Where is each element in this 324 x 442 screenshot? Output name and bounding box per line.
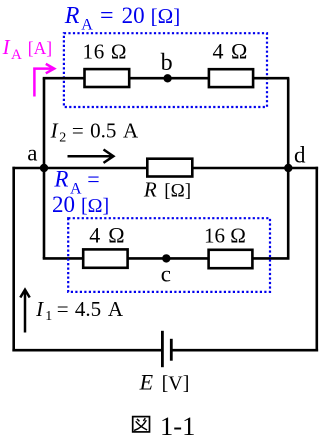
caption 図 1-1 (figure 1-1) <box>133 411 196 441</box>
arrow I_1 (upward current arrow) <box>20 290 29 333</box>
label R_A = 20 [Ω] (top, blue) <box>64 3 180 33</box>
svg-text:I: I <box>2 35 11 59</box>
wire bottom branch horizontal <box>43 257 290 260</box>
resistor 16Ω (top left) <box>85 69 130 87</box>
svg-text:20: 20 <box>122 3 145 28</box>
svg-text:[Ω]: [Ω] <box>164 181 191 202</box>
wire middle rail a to d <box>12 167 318 170</box>
svg-text:20: 20 <box>52 192 75 217</box>
arrow I_A (magenta elbow arrow) <box>34 64 54 97</box>
wire top branch horizontal <box>43 77 290 80</box>
svg-text:=: = <box>72 118 84 142</box>
resistor 4Ω (bottom left) <box>83 249 127 267</box>
svg-text:R: R <box>64 3 80 29</box>
node d <box>284 164 292 172</box>
svg-text:4 Ω: 4 Ω <box>213 38 249 63</box>
svg-text:16 Ω: 16 Ω <box>204 223 246 247</box>
svg-text:=: = <box>100 3 114 29</box>
svg-text:16 Ω: 16 Ω <box>83 39 128 63</box>
svg-text:I: I <box>35 297 44 321</box>
label I_A [A] (magenta) <box>2 35 52 63</box>
label R_A = 20 [Ω] (middle left, blue, two lines) <box>52 167 109 217</box>
wire left riser from top branch through a to bottom branch <box>43 78 46 258</box>
svg-text:c: c <box>161 262 171 287</box>
svg-text:R: R <box>143 178 157 202</box>
value label E [V] <box>139 369 190 394</box>
svg-text:d: d <box>294 143 306 168</box>
svg-text:R: R <box>53 167 68 192</box>
resistor 16Ω (bottom right) <box>209 250 253 268</box>
label I_1 = 4.5 A <box>35 297 124 324</box>
arrow I_2 (current direction) <box>68 150 114 163</box>
svg-text:[V]: [V] <box>162 372 190 394</box>
svg-text:a: a <box>27 141 37 166</box>
resistor 4Ω (top right) <box>209 69 253 87</box>
svg-text:1: 1 <box>45 309 52 324</box>
annotation box R_A (top dotted rectangle) <box>64 33 267 107</box>
svg-text:b: b <box>161 50 173 76</box>
wire bottom rail right segment from battery <box>171 349 318 352</box>
label I_2 = 0.5 A <box>50 118 139 145</box>
svg-text:A: A <box>123 118 139 142</box>
svg-text:A: A <box>11 47 22 63</box>
svg-text:[Ω]: [Ω] <box>81 195 109 217</box>
svg-text:[Ω]: [Ω] <box>151 4 181 28</box>
svg-text:=: = <box>57 297 69 321</box>
svg-text:=: = <box>87 167 99 192</box>
svg-text:1-1: 1-1 <box>160 411 195 437</box>
battery E long plate <box>161 331 164 367</box>
wire right riser from top branch through d to bottom branch <box>287 78 290 258</box>
svg-text:0.5: 0.5 <box>90 118 116 142</box>
battery E short plate <box>170 339 173 361</box>
svg-text:4.5: 4.5 <box>75 297 101 321</box>
svg-text:4 Ω: 4 Ω <box>89 223 125 248</box>
svg-text:2: 2 <box>59 130 66 145</box>
node c <box>162 254 170 262</box>
svg-text:E: E <box>139 369 154 394</box>
svg-text:[A]: [A] <box>28 38 52 58</box>
value label R [Ω] (middle) <box>143 178 191 202</box>
svg-text:A: A <box>81 16 93 33</box>
wire right outer vertical <box>315 167 318 352</box>
annotation box R_A (bottom dotted rectangle) <box>68 218 270 292</box>
wire left outer vertical <box>12 167 15 352</box>
svg-text:I: I <box>50 118 59 142</box>
svg-text:A: A <box>108 297 124 321</box>
resistor R (middle) <box>147 159 192 177</box>
wire bottom rail left segment to battery <box>12 349 162 352</box>
node b <box>163 74 171 82</box>
node a <box>40 164 48 172</box>
